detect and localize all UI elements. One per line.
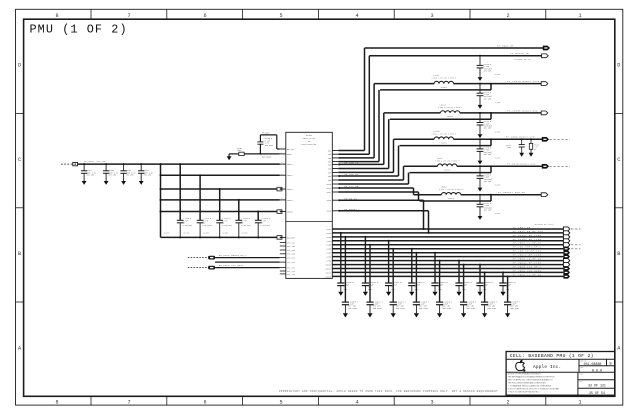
connector J421 lower-left xyxy=(188,267,208,269)
Apple logo xyxy=(516,360,526,371)
svg-text:Apple Inc.: Apple Inc. xyxy=(533,365,561,370)
junction R2 output node xyxy=(479,55,481,57)
svg-text:051-08888: 051-08888 xyxy=(584,362,602,366)
output arrow R7 xyxy=(541,193,548,197)
svg-text:XW_GND: XW_GND xyxy=(203,233,209,235)
svg-text:6: 6 xyxy=(203,399,206,405)
svg-text:B: B xyxy=(18,251,21,257)
svg-text:MURATA: MURATA xyxy=(441,142,448,145)
wire buck row R5 feed xyxy=(394,138,435,140)
svg-text:X5R 0201: X5R 0201 xyxy=(265,145,274,147)
wire cap2 drop xyxy=(199,175,201,220)
port connector PP_VDDLP_RF_1V80 xyxy=(563,254,570,258)
capacitor C4216 output xyxy=(479,56,481,66)
junction bus tap col8b xyxy=(507,275,509,277)
capacitor C4203 xyxy=(259,135,261,142)
svg-text:X5R...: X5R... xyxy=(462,288,469,291)
svg-text:SHT: SHT xyxy=(580,381,583,383)
port connector PP_LDO1_RF xyxy=(563,227,569,231)
output arrow R6 xyxy=(542,164,549,168)
wire pin RF_RESET_L to bus xyxy=(338,210,428,212)
capacitor C4211 bank2 xyxy=(197,219,204,221)
svg-text:X5R...: X5R... xyxy=(483,288,490,291)
border zone ticks top xyxy=(90,9,92,19)
wire cap4 drop xyxy=(238,200,240,220)
svg-text:1: 1 xyxy=(281,173,282,175)
svg-text:VBAT4: VBAT4 xyxy=(287,199,294,202)
wire R6 inductor to output xyxy=(457,165,542,167)
svg-text:X5R 0201: X5R 0201 xyxy=(442,307,452,310)
wire bus net PP_VDD_SMPS_RF_X xyxy=(332,248,563,250)
wire RF_UNLK_SPI_MOSI xyxy=(215,267,280,269)
svg-text:SW12: SW12 xyxy=(327,191,332,194)
svg-text:BAT_ON: BAT_ON xyxy=(287,148,294,151)
port connector PP_VDD_SMPS_RF_X xyxy=(563,247,570,251)
svg-text:PP_VANA1_RF_1V80: PP_VANA1_RF_1V80 xyxy=(513,261,542,264)
port connector PP_VANA1_RF_1V80 xyxy=(563,262,569,266)
svg-text:1: 1 xyxy=(281,152,282,154)
svg-text:20% X5R: 20% X5R xyxy=(86,175,94,177)
svg-text:XW_GND: XW_GND xyxy=(495,158,501,160)
junction bus tap col4a xyxy=(411,248,413,250)
junction bus tap col5b xyxy=(439,260,441,262)
junction bus tap col7b xyxy=(484,271,486,273)
svg-text:C: C xyxy=(18,157,21,163)
wire dash-dot extension xyxy=(571,248,581,250)
svg-text:SPI_250: SPI_250 xyxy=(287,249,296,252)
svg-text:VBAT3: VBAT3 xyxy=(287,188,294,191)
wire fan verticals and pin connections xyxy=(338,150,364,152)
resistor R4204 xyxy=(239,152,244,155)
svg-text:PP_VRTC_RF_AP_1V8: PP_VRTC_RF_AP_1V8 xyxy=(513,230,544,233)
junction cap4 tap xyxy=(238,199,240,201)
port connector PP_VREG_S2_RF_XO xyxy=(563,243,569,247)
svg-text:SPI_262: SPI_262 xyxy=(287,261,295,264)
U4201 right pins fan group xyxy=(332,150,338,152)
wire RF_UNLK_SPI_CLK middle xyxy=(215,261,280,263)
svg-text:20% X5R: 20% X5R xyxy=(484,71,492,73)
junction cap1 tap xyxy=(179,163,181,165)
svg-text:PP_VMAIN_BUCK2_1V25: PP_VMAIN_BUCK2_1V25 xyxy=(507,80,540,83)
svg-text:1: 1 xyxy=(281,162,282,164)
svg-text:X5R...: X5R... xyxy=(414,288,421,291)
wire bus net PP_VSIM1_RF_1V80 xyxy=(332,236,563,238)
svg-text:LDO11: LDO11 xyxy=(325,267,332,270)
capacitor C4322 rowB xyxy=(392,249,394,302)
wire wake to ground xyxy=(229,153,239,155)
svg-text:8: 8 xyxy=(55,13,58,19)
svg-text:4: 4 xyxy=(355,399,358,405)
wire R3 feedback return xyxy=(380,89,491,91)
svg-text:XW_GND: XW_GND xyxy=(495,74,501,76)
wire buck row R4 feed xyxy=(384,112,441,114)
capacitor C4217 output xyxy=(479,84,481,94)
wire dashed extension R5 xyxy=(550,138,571,140)
svg-text:2: 2 xyxy=(506,13,509,19)
wire L4 VBAT4 xyxy=(161,199,280,201)
svg-text:MURATA: MURATA xyxy=(444,169,451,172)
svg-text:SW9: SW9 xyxy=(328,179,331,182)
svg-text:PP_BUCK0_SW: PP_BUCK0_SW xyxy=(510,52,529,55)
title block outer xyxy=(506,352,615,396)
junction bus tap col2a xyxy=(364,236,366,238)
svg-text:XW_GND: XW_GND xyxy=(222,233,228,235)
capacitor C4310 rowA xyxy=(340,233,342,283)
svg-text:0.00A 2.2UH-20% 0.35X0.8: 0.00A 2.2UH-20% 0.35X0.8 xyxy=(439,188,463,191)
capacitor C4204 xyxy=(83,163,85,165)
svg-text:PP_VDIG_BUCK1_1V1: PP_VDIG_BUCK1_1V1 xyxy=(507,163,536,166)
resistor series box left pin GND_REF xyxy=(277,236,282,240)
svg-text:X5R 0201: X5R 0201 xyxy=(510,307,520,310)
svg-text:II. NOT TO REPRODUCE OR COPY I: II. NOT TO REPRODUCE OR COPY IT IN WHOLE… xyxy=(508,387,560,390)
border zone ticks bottom xyxy=(90,396,92,405)
svg-text:XW_GND: XW_GND xyxy=(495,102,501,104)
svg-text:0.00A 2.2UH-20% 0.35X0.8: 0.00A 2.2UH-20% 0.35X0.8 xyxy=(435,159,459,162)
U4201 section divider xyxy=(286,221,333,223)
junction R5 snubber node xyxy=(521,138,523,140)
svg-text:20% X5R: 20% X5R xyxy=(108,175,116,177)
capacitor C4207 xyxy=(140,163,142,165)
svg-text:XW_GND: XW_GND xyxy=(164,233,170,235)
svg-text:6.3V(20%): 6.3V(20%) xyxy=(203,225,213,227)
inductor L4210 xyxy=(434,137,453,139)
svg-text:PP_VREG_S2_RF_XO: PP_VREG_S2_RF_XO xyxy=(513,242,542,245)
inductor L4212 xyxy=(434,81,453,83)
capacitor C4219 output xyxy=(479,139,481,149)
capacitor C4218 output xyxy=(479,113,481,123)
svg-text:D: D xyxy=(617,63,620,69)
svg-text:MIC/P4201/A1: MIC/P4201/A1 xyxy=(302,143,318,146)
svg-text:SW7: SW7 xyxy=(328,171,331,174)
title block logo cell divider xyxy=(578,359,580,372)
svg-text:BAT_WAKE: BAT_WAKE xyxy=(262,155,272,158)
svg-text:X5R...: X5R... xyxy=(438,288,445,291)
wire bus net PP_LDO1_RF xyxy=(332,228,563,230)
capacitor C4220 output xyxy=(479,166,481,176)
svg-text:6.3V(20%): 6.3V(20%) xyxy=(241,225,251,227)
inductor L4213 xyxy=(440,111,459,113)
port connector PP_VREG_L6_RF_XO xyxy=(563,259,569,263)
U4201 left pins upper group xyxy=(280,148,286,150)
port connector PP_VREG_L2_RF_XO xyxy=(563,274,570,278)
junction bus tap col8a xyxy=(502,271,504,273)
svg-text:PP_LDO1_RF: PP_LDO1_RF xyxy=(513,226,531,229)
svg-text:20% X5R: 20% X5R xyxy=(126,175,134,177)
title block right column dividers xyxy=(577,372,579,395)
wire R4 inductor to output xyxy=(460,112,541,114)
resistor R4214 snubber xyxy=(530,139,532,143)
capacitor C4210 bank2 xyxy=(177,219,184,221)
U4201 left pins lower group xyxy=(280,242,286,244)
svg-text:X5R...: X5R... xyxy=(391,288,398,291)
junction R5 snubber R node xyxy=(530,138,532,140)
svg-text:VBAT5: VBAT5 xyxy=(287,210,294,213)
wire bus net PP_VDDA_USB_3V30 xyxy=(332,271,563,273)
wire V1 battery vertical xyxy=(160,164,162,237)
junction wake xyxy=(260,153,262,155)
svg-text:0.00A 2.2UH-20% 0.35X0.8: 0.00A 2.2UH-20% 0.35X0.8 xyxy=(432,77,456,80)
svg-text:1: 1 xyxy=(578,13,581,19)
resistor series box left pin VBAT3 xyxy=(277,187,282,191)
junction bus tap col5a xyxy=(434,252,436,254)
junction bus tap col2b xyxy=(369,244,371,246)
wire R4 feedback return xyxy=(390,118,491,120)
svg-text:P. NOT TO USE EXCEPT AS NOTED.: P. NOT TO USE EXCEPT AS NOTED. xyxy=(508,390,540,393)
svg-text:XW_GND: XW_GND xyxy=(184,233,190,235)
port connector PP_VREG_L13_RF_X xyxy=(563,266,570,270)
junction bus tap col6a xyxy=(458,260,460,262)
svg-text:X5R 0201: X5R 0201 xyxy=(419,307,429,310)
svg-text:VBAT1: VBAT1 xyxy=(287,163,294,166)
svg-text:RF_UNLK_SPI_MOSI: RF_UNLK_SPI_MOSI xyxy=(219,264,244,267)
svg-text:X5R 0201: X5R 0201 xyxy=(396,307,406,310)
svg-text:PP_VANA_BUCK4_1V8: PP_VANA_BUCK4_1V8 xyxy=(506,136,535,139)
capacitor C4205 xyxy=(105,163,107,165)
wire bus net PP_VRTC_RF_AP_1V8 xyxy=(332,232,563,234)
svg-text:LDO2: LDO2 xyxy=(327,232,332,235)
wire bus net PP_VDDLP_RF_1V80 xyxy=(332,256,563,258)
title block row dividers xyxy=(506,358,615,360)
connector battery input xyxy=(73,162,78,165)
wire dash-dot extension xyxy=(571,228,581,230)
junction bus tap col3b xyxy=(392,248,394,250)
svg-text:PP_VBOOST_5V0_RF: PP_VBOOST_5V0_RF xyxy=(498,191,525,194)
wire bus net PP_VREG_S2_RF_XO xyxy=(332,244,563,246)
svg-text:20% X5R: 20% X5R xyxy=(143,175,151,177)
svg-text:SPI_273: SPI_273 xyxy=(287,273,296,276)
svg-text:SW2: SW2 xyxy=(328,153,331,156)
svg-text:XW_GND: XW_GND xyxy=(495,185,501,187)
U4201 right pin net labels with junction dots xyxy=(338,163,340,165)
svg-text:PROPRIETARY AND CONFIDENTIAL:: PROPRIETARY AND CONFIDENTIAL: APPLE NEED… xyxy=(279,390,500,393)
op-amp U4201 PMU IC body xyxy=(286,132,333,278)
capacitor C4315 rowA xyxy=(458,261,460,283)
wire R6 feedback return xyxy=(410,172,492,174)
svg-text:X5R...: X5R... xyxy=(368,288,375,291)
svg-text:0.00A 2.2UH-20% 0.35X0.8: 0.00A 2.2UH-20% 0.35X0.8 xyxy=(438,106,462,109)
svg-text:ERTY OF APPLE INC. THE POSSESS: ERTY OF APPLE INC. THE POSSESSOR AGREES … xyxy=(508,379,553,382)
junction bus tap col6b xyxy=(463,264,465,266)
wire dashed extension R6 xyxy=(550,165,571,167)
junction bus tap col7a xyxy=(479,264,481,266)
wire L2 VBAT2 xyxy=(161,174,280,176)
wire R5 inductor to output xyxy=(454,138,543,140)
wire L3 VBAT3 xyxy=(161,188,278,190)
svg-text:20% X5R: 20% X5R xyxy=(484,128,492,130)
svg-text:6.3V(20%): 6.3V(20%) xyxy=(222,225,232,227)
svg-text:C: C xyxy=(617,157,620,163)
svg-text:REV: REV xyxy=(581,367,584,369)
svg-text:1: 1 xyxy=(578,399,581,405)
svg-text:20% X5R: 20% X5R xyxy=(484,154,492,156)
svg-text:SPI_253: SPI_253 xyxy=(287,253,296,256)
wire cap3 drop xyxy=(219,189,221,220)
junction R3 output node xyxy=(479,83,481,85)
svg-text:VBAT2: VBAT2 xyxy=(287,174,293,177)
wire cap5 drop xyxy=(257,212,259,221)
svg-text:3: 3 xyxy=(430,399,433,405)
svg-text:PP_BATT_VCC_RF: PP_BATT_VCC_RF xyxy=(84,160,106,163)
svg-text:NOTICE OF PROPRIETARY PROPERTY: NOTICE OF PROPRIETARY PROPERTY: xyxy=(508,373,542,376)
capacitor C4311 rowA xyxy=(364,237,366,283)
capacitor C4206 xyxy=(123,163,125,165)
svg-text:PP_VDD_SMPS_RF_X: PP_VDD_SMPS_RF_X xyxy=(513,246,542,249)
resistor series box left pin VBAT5 xyxy=(277,210,282,214)
svg-text:PP_LDO_XO_RF_1V8: PP_LDO_XO_RF_1V8 xyxy=(513,250,542,253)
svg-text:PP_VREG_L2_RF_XO: PP_VREG_L2_RF_XO xyxy=(513,273,542,276)
junction node V1 on L1 xyxy=(160,163,162,165)
wire pin RF_BB_ON to bus xyxy=(338,199,423,201)
wire buck row R3 feed xyxy=(374,83,434,85)
svg-text:PMU (1 OF 2): PMU (1 OF 2) xyxy=(30,23,128,37)
svg-text:8: 8 xyxy=(55,399,58,405)
output arrow R1 xyxy=(543,46,550,50)
wire R3 inductor to output xyxy=(454,83,542,85)
wire buck row R2 feed xyxy=(369,55,541,57)
output arrow R4 xyxy=(541,111,548,115)
capacitor C4325 rowB xyxy=(463,265,465,303)
svg-text:PP_VREG_L6_RF_XO: PP_VREG_L6_RF_XO xyxy=(513,258,542,261)
svg-text:PP_BATT: PP_BATT xyxy=(262,132,271,135)
capacitor C4324 rowB xyxy=(439,261,441,303)
capacitor C4314 rowA xyxy=(434,253,436,283)
svg-text:20% X5R: 20% X5R xyxy=(484,181,492,183)
capacitor C4316 rowA xyxy=(479,265,481,283)
output arrow R2 xyxy=(542,54,549,58)
junction R7 output node xyxy=(479,194,481,196)
wire wake top loop xyxy=(260,134,276,136)
junction cap3 tap xyxy=(219,188,221,190)
svg-text:THE INFORMATION CONTAINED HERE: THE INFORMATION CONTAINED HEREIN IS THE … xyxy=(508,376,556,379)
wire dash-dot extension xyxy=(571,244,581,246)
capacitor C4321 rowB xyxy=(369,245,371,302)
svg-text:32 OF 121: 32 OF 121 xyxy=(588,384,606,388)
svg-text:XW_GND: XW_GND xyxy=(242,233,248,235)
svg-text:X5R...: X5R... xyxy=(506,288,513,291)
svg-text:PP_VCORE_BUCK3_0V9: PP_VCORE_BUCK3_0V9 xyxy=(507,109,538,112)
svg-text:I. TO MAINTAIN THIS DOCUMENT I: I. TO MAINTAIN THIS DOCUMENT IN CONFIDEN… xyxy=(508,385,552,388)
wire R5 feedback return xyxy=(400,145,492,147)
wire bus net PP_VANA1_RF_1V80 xyxy=(332,264,563,266)
svg-text:XW_GND: XW_GND xyxy=(495,131,501,133)
svg-text:SPI_246: SPI_246 xyxy=(287,245,296,248)
capacitor C4212 bank2 xyxy=(216,219,223,221)
capacitor C4221 output xyxy=(479,195,481,205)
capacitor C4320 rowB xyxy=(344,237,346,302)
port connector PP_LDO_XO_RF_1V8 xyxy=(563,251,570,255)
ground arrow wake xyxy=(227,156,232,160)
capacitor C4327 rowB xyxy=(507,276,509,302)
svg-text:0.00A 2.2UH-20% 0.35X0.8: 0.00A 2.2UH-20% 0.35X0.8 xyxy=(432,132,456,135)
svg-text:A.0.0: A.0.0 xyxy=(592,369,602,373)
svg-text:LDO13: LDO13 xyxy=(325,275,332,278)
wire R7 inductor to output xyxy=(461,194,541,196)
svg-text:LDO10: LDO10 xyxy=(325,263,332,266)
svg-text:4: 4 xyxy=(355,13,358,19)
svg-text:20% X5R: 20% X5R xyxy=(484,98,492,100)
capacitor C4213 bank2 xyxy=(235,219,242,221)
wire bus net PP_VSIM2_RF_1V80 xyxy=(332,240,563,242)
junction bus tap col1a xyxy=(340,232,342,234)
svg-text:5: 5 xyxy=(279,399,282,405)
wire RF_UNLK_RADIO_ON_L xyxy=(215,257,280,259)
border zone ticks right xyxy=(615,113,623,115)
svg-text:2: 2 xyxy=(506,399,509,405)
inductor L4211 xyxy=(438,164,457,166)
svg-text:PP_VDDLP_RF_1V80: PP_VDDLP_RF_1V80 xyxy=(513,254,542,257)
svg-text:OPTIONAL BB VIO: OPTIONAL BB VIO xyxy=(515,58,531,61)
svg-text:1: 1 xyxy=(281,198,282,200)
wire bus net PP_VREG_L6_RF_XO xyxy=(332,260,563,262)
wire dashed off-page left xyxy=(61,163,73,165)
wire bus net PP_VREG_L2_RF_XO xyxy=(332,275,563,277)
junction R4 output node xyxy=(479,112,481,114)
junction R5 output node xyxy=(479,138,481,140)
svg-text:6.3V(20%): 6.3V(20%) xyxy=(183,225,193,227)
wire R7 feedback return xyxy=(420,200,492,202)
capacitor C4214 snubber xyxy=(521,139,523,144)
border zone ticks left xyxy=(16,113,24,115)
svg-text:GND_REF: GND_REF xyxy=(287,236,295,239)
svg-text:MURATA: MURATA xyxy=(447,115,454,118)
svg-text:SPI_257: SPI_257 xyxy=(287,257,295,260)
port connector PP_VRTC_RF_AP_1V8 xyxy=(563,231,569,235)
junction bus tap col4b xyxy=(415,252,417,254)
junction cap2 tap xyxy=(199,174,201,176)
svg-text:RF_UNLK_RADIO_ON_L: RF_UNLK_RADIO_ON_L xyxy=(219,254,247,257)
junction bus tap col3a xyxy=(388,240,390,242)
svg-text:6.3V(20%): 6.3V(20%) xyxy=(261,225,271,227)
svg-text:PP_VDDA_USB_3V30: PP_VDDA_USB_3V30 xyxy=(513,269,542,272)
svg-text:PP_VSIM1_RF_1V80: PP_VSIM1_RF_1V80 xyxy=(513,234,542,237)
junction R6 output node xyxy=(479,165,481,167)
output arrow R3 xyxy=(541,82,548,86)
capacitor C4313 rowA xyxy=(411,249,413,283)
wire L5 VBAT5 xyxy=(161,211,278,213)
svg-text:7: 7 xyxy=(127,13,130,19)
svg-text:PP_VSIM2_RF_1V80: PP_VSIM2_RF_1V80 xyxy=(513,238,542,241)
svg-text:LDO12: LDO12 xyxy=(325,271,331,274)
svg-text:20% X5R: 20% X5R xyxy=(484,210,492,212)
capacitor C4312 rowA xyxy=(388,241,390,283)
wire buck row R1 feed xyxy=(365,47,544,49)
svg-text:X5R 0201: X5R 0201 xyxy=(466,307,476,310)
junction cap5 tap xyxy=(257,211,259,213)
wire PP_BATT main L1 xyxy=(78,163,280,165)
output arrow R5 xyxy=(542,137,549,141)
svg-text:10PF: 10PF xyxy=(507,147,511,149)
wire L6 ground rail xyxy=(161,236,278,238)
svg-text:1: 1 xyxy=(281,147,282,149)
svg-text:CELL: BASEBAND PMU (1 OF 2): CELL: BASEBAND PMU (1 OF 2) xyxy=(510,353,594,359)
svg-text:3: 3 xyxy=(430,13,433,19)
inductor L5204 xyxy=(441,193,460,195)
svg-text:5: 5 xyxy=(279,13,282,19)
junction bus tap col1b xyxy=(344,236,346,238)
port connector PP_VDDA_USB_3V30 xyxy=(563,270,570,274)
svg-text:MURATA: MURATA xyxy=(448,197,455,200)
svg-text:OPTIONAL BB (AT&T): OPTIONAL BB (AT&T) xyxy=(534,223,553,226)
svg-text:X5R 0201: X5R 0201 xyxy=(487,307,497,310)
capacitor C4323 rowB xyxy=(415,253,417,302)
svg-text:X5R 0201: X5R 0201 xyxy=(348,307,358,310)
svg-text:X5R...: X5R... xyxy=(343,288,350,291)
capacitor C4317 rowA xyxy=(502,272,504,283)
wire buck row R7 feed xyxy=(414,194,442,196)
svg-text:PP_VBAT_RF: PP_VBAT_RF xyxy=(497,44,514,47)
svg-text:B: B xyxy=(617,251,620,257)
svg-text:PP_VREG_L13_RF_X: PP_VREG_L13_RF_X xyxy=(513,265,542,268)
